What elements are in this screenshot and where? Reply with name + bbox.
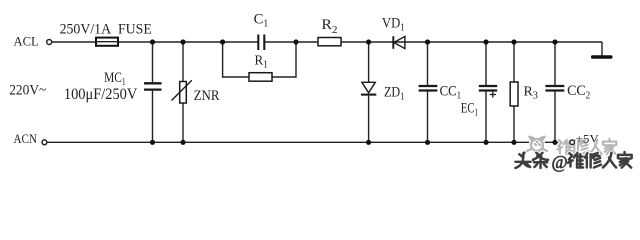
svg-text:250V/1A FUSE: 250V/1A FUSE — [60, 21, 152, 37]
svg-text:+5V: +5V — [576, 132, 600, 146]
svg-text:ZD1: ZD1 — [384, 85, 405, 103]
svg-text:R1: R1 — [255, 52, 269, 70]
svg-text:VD1: VD1 — [382, 16, 405, 34]
svg-text:220V~: 220V~ — [9, 82, 46, 98]
svg-text:R2: R2 — [322, 17, 338, 36]
svg-text:EC1: EC1 — [461, 101, 478, 119]
svg-text:ZNR: ZNR — [194, 88, 220, 104]
svg-text:CC1: CC1 — [440, 83, 461, 101]
svg-text:@: @ — [552, 152, 568, 172]
svg-text:CC2: CC2 — [567, 83, 590, 101]
svg-text:ACN: ACN — [14, 131, 38, 146]
svg-text:ACL: ACL — [14, 34, 39, 49]
svg-text:R3: R3 — [524, 84, 539, 102]
svg-text:100μF/250V: 100μF/250V — [64, 86, 138, 103]
svg-text:C1: C1 — [254, 11, 269, 29]
